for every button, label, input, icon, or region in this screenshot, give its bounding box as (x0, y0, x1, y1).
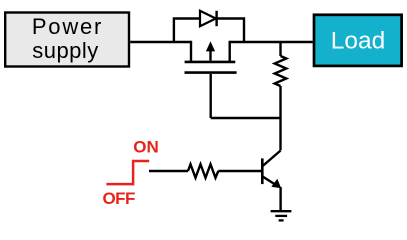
gate plate (185, 71, 237, 74)
wire: power supply to MOSFET source (130, 41, 191, 43)
wire: rail junction down to resistor R1 top (279, 42, 281, 56)
resistor R1 (gate pull-up, vertical) (275, 56, 287, 86)
diode: body diode of MOSFET (200, 11, 217, 26)
svg-text:ON: ON (133, 138, 159, 157)
wire: MOSFET drain to load (230, 41, 313, 43)
left stub (source) (190, 41, 192, 62)
wire: emitter down to ground (279, 187, 281, 211)
ground (271, 211, 292, 220)
base bar (261, 158, 264, 184)
gate lead (209, 74, 211, 118)
body arrow (209, 48, 211, 61)
collector lead (263, 151, 281, 166)
svg-text:OFF: OFF (102, 189, 135, 208)
node: ON/OFF input signal (red step waveform) (106, 161, 149, 184)
resistor R2 (base resistor, horizontal) (188, 164, 218, 178)
wire: gate net horizontal segment (211, 117, 281, 119)
transistor Q1: P-channel MOSFET (185, 41, 237, 118)
wire: diode cathode back down to rail (217, 19, 244, 43)
wire: base resistor to transistor base (218, 170, 261, 172)
wire: resistor R1 bottom down to collector node (279, 86, 281, 150)
channel bar (185, 61, 236, 64)
svg-text:Load: Load (331, 28, 386, 55)
power supply box (5, 13, 129, 67)
emitter arrow (271, 179, 281, 189)
svg-text:supply: supply (32, 38, 99, 63)
wire: input to base resistor (149, 170, 188, 172)
emitter lead (263, 177, 276, 185)
load box (314, 15, 402, 66)
wire: diode anode branch up from rail (174, 19, 200, 43)
svg-text:Power: Power (32, 14, 103, 39)
transistor Q2: NPN bipolar (262, 151, 281, 189)
right stub (drain) (228, 41, 230, 62)
